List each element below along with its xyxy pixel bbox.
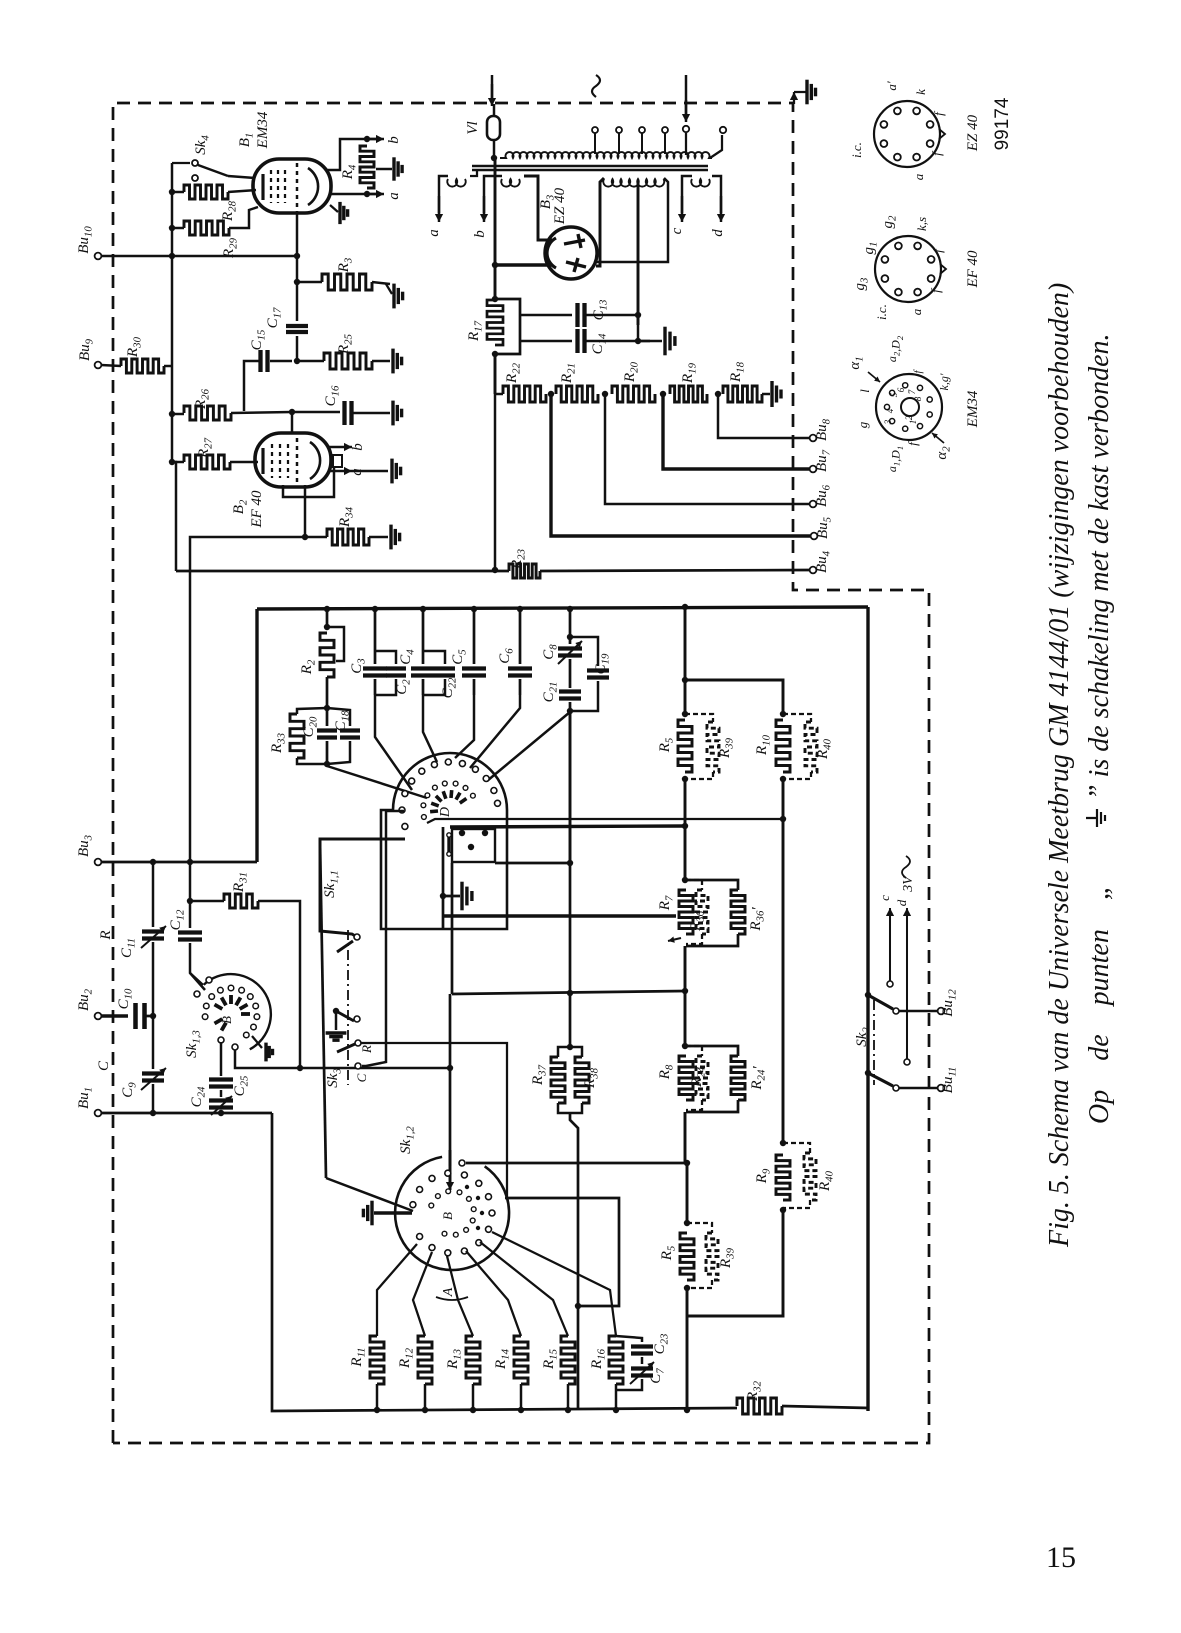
svg-text:d: d (710, 229, 726, 237)
resistor R16 (609, 1336, 623, 1384)
B2 suppressor loop (283, 467, 334, 497)
svg-text:EF 40: EF 40 (965, 250, 981, 289)
Sk1.2 output to R9 R40 (459, 1160, 465, 1166)
fan wires Sk1.2 to range resistors (377, 1244, 417, 1336)
Sk1.1 wafer rectangle (452, 829, 495, 862)
wire Sk4 to B1 grid (228, 176, 255, 178)
svg-text:l: l (857, 389, 872, 393)
Sk1.1 wiper ticks (430, 809, 438, 813)
B1 plate wires to a and b arrows (325, 139, 378, 170)
svg-text:EZ 40: EZ 40 (965, 114, 981, 152)
mains input arrow left (491, 75, 493, 98)
capacitor C5 (473, 609, 476, 664)
voltage divider chain R22 R21 R20 R19 R18 (494, 354, 497, 394)
capacitor C15 (270, 360, 292, 362)
svg-text:a: a (909, 308, 924, 315)
capacitor C13 (520, 314, 572, 316)
bus down to cathode junction (172, 462, 176, 571)
column R5 R39 upper (684, 607, 687, 714)
ground right of R4 (376, 168, 392, 170)
svg-text:k,g′: k,g′ (937, 373, 951, 390)
Sk1.1 wafer right branch down (495, 863, 570, 1047)
B1 cathode line (296, 211, 298, 282)
ground chassis top right (793, 92, 795, 104)
svg-text:2: 2 (904, 415, 914, 420)
column R7 R36 R36p (684, 826, 687, 880)
Sk1.2 contacts (410, 1202, 416, 1208)
column R10 R40 upper (685, 680, 783, 714)
Sk1.1 output line upper (427, 819, 783, 823)
resistor R40 dashed upper (783, 714, 811, 722)
label A pointer (436, 1297, 468, 1300)
terminal Bu8 (810, 435, 817, 442)
resistor R40 dashed lower (783, 1143, 810, 1153)
rectifier B3 EZ40 wiring (524, 176, 552, 240)
wires C13 C14 to ground node (585, 314, 638, 316)
svg-text:a: a (426, 229, 442, 237)
B2 anode wire up (291, 412, 293, 434)
wire C6 to switch (470, 695, 520, 768)
svg-text:4: 4 (885, 408, 895, 413)
Sk1.3 ground (252, 1036, 262, 1048)
svg-text:EM34: EM34 (255, 111, 271, 149)
link to R9 column (687, 1210, 783, 1316)
switch Sk4 (172, 162, 190, 164)
rotary switch Sk1.2 outline (395, 1157, 509, 1270)
capacitor C21 (569, 659, 572, 688)
fuse lamp Vl (493, 104, 495, 116)
resistor R34 (305, 536, 327, 538)
svg-text:a: a (349, 468, 365, 476)
capacitor C17 (296, 282, 298, 321)
switch Sk2 (873, 1000, 875, 1085)
secondary winding b heater (501, 179, 520, 187)
wire R33 block to Sk1.1 contact (327, 766, 427, 798)
svg-text:Op de punten „: Op de punten „ (1084, 885, 1115, 1124)
svg-text:A: A (441, 1287, 456, 1297)
svg-text:EF 40: EF 40 (249, 490, 265, 529)
bridge left rail (255, 609, 258, 862)
resistor R30 (101, 365, 121, 366)
wire C4 to switch (423, 695, 437, 762)
wire C3 to switch (375, 695, 412, 790)
B2 cathode and R34 (304, 485, 306, 537)
switch Sk3 dash-dot shaft (347, 930, 349, 1085)
terminal Bu10 (95, 253, 102, 260)
resistor R24p (686, 1046, 738, 1056)
capacitor C9 trimmer (152, 1016, 154, 1069)
capacitor C19 branch (570, 637, 598, 666)
svg-text:15: 15 (1046, 1541, 1076, 1574)
resistor R39 dashed lower (687, 1223, 712, 1233)
svg-text:EZ 40: EZ 40 (552, 187, 568, 225)
transformer primary right end terminal (710, 135, 722, 158)
AC tilde symbol (592, 75, 600, 97)
svg-text:R: R (359, 1045, 374, 1054)
ground right of R3 (392, 284, 395, 309)
transformer primary taps (594, 133, 596, 154)
capacitor C11 trimmer (152, 862, 154, 927)
Sk1.3 outer contacts (194, 991, 200, 997)
secondary winding HT (603, 179, 664, 187)
svg-text:7: 7 (907, 389, 917, 394)
resistor R2 with loop (326, 609, 329, 627)
node C17 C15 R25 (294, 358, 300, 364)
capacitor C23 (616, 1336, 642, 1342)
resistor R26 (172, 413, 184, 415)
socket diagram EF40 (875, 236, 941, 302)
svg-text:D: D (438, 807, 453, 818)
wire Bu10 line (101, 255, 297, 257)
resistor R4 (360, 146, 374, 188)
svg-text:i.c.: i.c. (849, 142, 864, 158)
svg-text:a: a (911, 173, 926, 180)
ground below B1 (330, 205, 338, 212)
svg-text:R: R (98, 930, 114, 940)
transformer core (472, 165, 708, 167)
line to Bu4 with R23 (494, 394, 496, 570)
svg-text:b: b (472, 230, 488, 238)
svg-text:B: B (219, 1016, 234, 1024)
svg-text:Fig. 5. Schema van de Univers: Fig. 5. Schema van de Universele Meetbru… (1044, 283, 1075, 1248)
EM34 labels (868, 372, 880, 382)
svg-text:k,s: k,s (914, 217, 929, 231)
capacitor C22 parallel (423, 651, 445, 664)
capacitor C6 (519, 609, 522, 664)
B2 internals (261, 448, 264, 474)
terminal Bu9 (95, 362, 102, 369)
wires to terminals Bu5-Bu8 (718, 394, 809, 438)
column R8 R24 R24p (684, 991, 687, 1046)
capacitor C2 parallel (375, 651, 396, 664)
terminal Bu4 (810, 567, 817, 574)
capacitor C4 (422, 609, 425, 664)
capacitor C18 (327, 708, 350, 726)
svg-text:b: b (350, 443, 366, 451)
wires below R5 R10 pairs (684, 779, 687, 826)
resistor R11 (370, 1336, 384, 1384)
svg-text:c: c (877, 895, 892, 901)
wire C21 down to wafer branch (569, 711, 572, 863)
svg-text:d: d (894, 899, 909, 906)
B1 internals (261, 174, 264, 200)
capacitor C12 (189, 862, 191, 928)
column R37 R38 (567, 1044, 573, 1050)
capacitors C25 C24 to Bu1 (220, 1042, 222, 1076)
svg-text:” is de schakeling met de kast: ” is de schakeling met de kast verbonden… (1084, 333, 1115, 800)
rotary switch Sk1.3 (204, 974, 271, 1049)
resistor R36 dashed (686, 880, 702, 890)
Sk1.1 contacts (402, 823, 408, 829)
B2 screen arrows a b (327, 446, 337, 448)
bridge bottom rail (272, 1113, 737, 1411)
svg-text:a′: a′ (884, 81, 899, 91)
wire C5 to switch (455, 695, 474, 758)
terminal Bu3 line (95, 859, 102, 866)
resistor R3 (297, 281, 322, 283)
socket diagram EZ40 (874, 101, 940, 167)
bridge top rail (257, 607, 868, 609)
Sk1.2 ground (374, 1211, 412, 1214)
Sk1.2 vertical feed (449, 994, 452, 1166)
Sk1.1 wafer ground branch (451, 863, 454, 994)
HT rail down to R17 (494, 158, 497, 299)
secondary winding a (447, 179, 466, 187)
wire contact to C12 col (362, 811, 404, 1066)
svg-text:3: 3 (883, 419, 893, 425)
capacitor C14 (520, 340, 572, 342)
svg-text:3V: 3V (901, 875, 916, 893)
resistor R29 (172, 227, 184, 229)
ground PSU (663, 327, 666, 356)
bridge right rail (866, 607, 869, 1411)
terminal Bu5 (811, 533, 818, 540)
svg-text:Vl: Vl (465, 121, 481, 134)
rotary switch Sk1.1 outline (381, 753, 507, 929)
terminal Bu2 and C10 (95, 1013, 102, 1020)
resistor R27 (172, 461, 184, 463)
Sk1.1 output line lower (450, 826, 685, 827)
svg-text:i.c.: i.c. (874, 304, 889, 320)
svg-text:C: C (354, 1073, 369, 1082)
column lower R5 R39 (686, 1163, 689, 1223)
capacitor C8 trimmer (569, 609, 572, 644)
svg-text:b: b (386, 136, 402, 144)
resistor R33 (297, 708, 327, 714)
svg-text:8: 8 (913, 396, 923, 401)
resistor R13 (466, 1336, 480, 1384)
resistor R31 (190, 900, 224, 902)
svg-text:6: 6 (896, 387, 906, 392)
resistor R23 (509, 564, 540, 578)
svg-text:k: k (913, 89, 928, 95)
capacitor C7 trimmer (631, 1366, 653, 1370)
svg-text:c: c (669, 227, 685, 234)
socket diagram EM34 (876, 374, 942, 440)
left bus vertical (171, 163, 173, 366)
column R9 R40 lower (780, 1207, 786, 1213)
transformer primary winding (491, 155, 497, 161)
svg-text:g: g (855, 421, 870, 428)
capacitor C3 (374, 609, 377, 664)
left bus to R26 R27 (171, 366, 173, 462)
terminals Bu11 Bu12 (899, 1010, 938, 1012)
Sk1.2 output right lower (505, 1198, 619, 1306)
resistor R28 (172, 191, 184, 193)
resistor R14 (514, 1336, 528, 1384)
horizontal from wafer to R7 column (452, 991, 685, 994)
capacitor C16 (292, 411, 340, 413)
resistor R15 (561, 1336, 575, 1384)
terminal Bu7 (810, 466, 817, 473)
wire B3 cathode to HT node (495, 263, 552, 266)
svg-text:EM34: EM34 (965, 390, 981, 428)
svg-text:C: C (96, 1060, 112, 1071)
svg-text:B: B (440, 1212, 455, 1220)
rectifier tube B3 EZ40 (545, 227, 597, 279)
B1 target wire to arrow a (330, 193, 378, 195)
Sk1.3 bottom loop to Sk1.2 (235, 1050, 451, 1068)
capacitor C20 (326, 708, 329, 726)
resistor R12 (418, 1336, 432, 1384)
dashed enclosure border (113, 103, 929, 1443)
cathode wire to bridge (190, 537, 305, 862)
Sk3 contacts and arms (354, 934, 360, 940)
resistor R17 (492, 296, 498, 302)
wire from contact to bridge left lower (326, 1178, 413, 1211)
secondary winding d (691, 179, 710, 187)
resistor R32 (737, 1398, 782, 1414)
svg-text:a: a (386, 192, 402, 200)
terminal Bu6 (810, 501, 817, 508)
resistor R36p (686, 880, 738, 890)
svg-text:99174: 99174 (992, 97, 1013, 150)
wire Sk3 to Sk1.1 region (320, 839, 405, 937)
tube B2 EF40 envelope (255, 433, 331, 487)
Sk1.1 left vertical (442, 827, 445, 928)
terminal Bu1 line (95, 1110, 102, 1117)
tube B1 EM34 envelope (253, 159, 331, 213)
Sk3 R line to Sk1.2 right (361, 1043, 507, 1198)
Sk1.2 wiper dots (465, 1185, 469, 1189)
resistor R39 dashed upper (685, 714, 713, 722)
resistor R25 (297, 360, 324, 362)
resistor R24 dashed (686, 1046, 702, 1056)
mains input arrow right (685, 75, 687, 116)
R17 bypass jog (495, 299, 520, 354)
arrows c d 3V (889, 908, 891, 981)
